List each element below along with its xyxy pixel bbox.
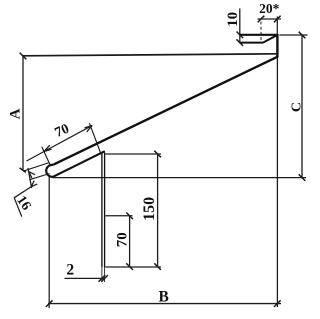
serif 70 leg bottom (126, 263, 133, 270)
leg bottom extensions for 2 (101, 267, 103, 282)
profile: leg left edge (101, 152, 103, 267)
dimension 150 line (157, 154, 159, 267)
serif 70 leg top (126, 213, 133, 220)
serif B right (274, 300, 281, 307)
16 dimension line (steep, through both extensions) (28, 168, 32, 188)
svg-text:A: A (8, 108, 24, 119)
serif B left (46, 300, 53, 307)
dimension 70 diagonal line (27, 125, 93, 161)
extension 150 top (106, 153, 162, 155)
extension 70 diag at hook (42, 147, 50, 165)
shared bottom extension (106, 266, 162, 268)
serif 20* right (274, 16, 281, 23)
top horizontal reference line (23, 54, 277, 56)
profile: top flange bottom edge (240, 42, 263, 44)
serif 10 lower (237, 39, 244, 46)
extension B left (48, 177, 50, 308)
extension C top (279, 34, 307, 36)
svg-text:10: 10 (225, 12, 241, 27)
arrow 70 diag upper (85, 126, 93, 132)
dimension 2 line (65, 277, 105, 279)
svg-text:150: 150 (141, 197, 158, 221)
profile: main diagonal sheet (53, 57, 277, 165)
arrow 70 diag lower (44, 145, 52, 151)
extension B right (continuation of profile right face) (276, 58, 278, 308)
serif C top (299, 32, 306, 39)
serif 150 bottom (154, 263, 161, 270)
16 extension upper (from hook top) (23, 163, 50, 172)
profile: hem lower line (53, 151, 105, 177)
profile: leg right edge (104, 153, 106, 268)
profile: right vertical face (276, 34, 278, 58)
svg-text:20*: 20* (259, 1, 280, 16)
serif 2 b (101, 275, 108, 282)
long extension line at hook level (53, 177, 307, 179)
16 leader shelf (14, 187, 31, 217)
dimension 10 line (239, 9, 241, 44)
profile: drip wedge diagonal (263, 35, 277, 43)
dimension C line (301, 35, 303, 178)
extension 20* right (276, 17, 278, 34)
serif 2 a (99, 275, 106, 282)
serif C bottom (299, 174, 306, 181)
dimension 20* line (258, 18, 282, 20)
arrow 16 upper (29, 172, 35, 178)
serif 150 top (154, 151, 161, 158)
svg-text:C: C (290, 102, 305, 112)
svg-text:70: 70 (114, 232, 130, 247)
dimension A line (22, 56, 24, 170)
serif at A bottom (20, 168, 26, 172)
extension 70 diag at leg junction (89, 123, 100, 153)
extension 70 leg top (106, 215, 133, 217)
serif 10 upper (237, 32, 244, 39)
profile: top flange top edge (240, 34, 278, 36)
dashed extension 20* left (260, 22, 262, 42)
dimension B line (48, 303, 281, 305)
serif at A top (20, 53, 27, 60)
dimension 70 leg line (129, 216, 131, 267)
svg-text:B: B (159, 289, 169, 306)
serif 20* left (258, 16, 265, 23)
arrow 16 lower (31, 181, 37, 187)
svg-text:2: 2 (66, 262, 74, 279)
16 extension lower (from hook bottom) (29, 174, 49, 180)
profile: hem hook end cap (46, 165, 53, 177)
